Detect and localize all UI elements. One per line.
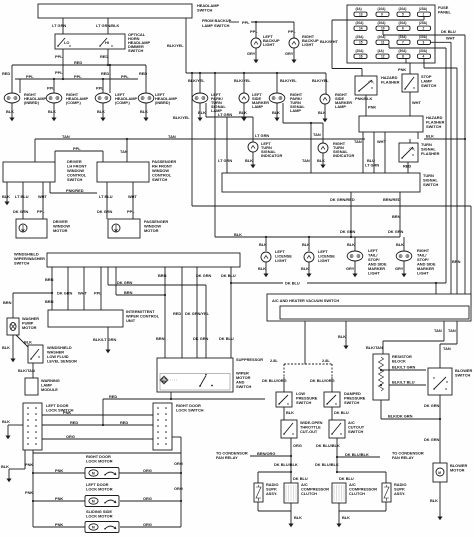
svg-text:BLK/TAN: BLK/TAN	[18, 368, 35, 373]
svg-text:DK BLU: DK BLU	[339, 476, 354, 481]
svg-text:SWITCH: SWITCH	[128, 48, 144, 53]
svg-text:BLK/DK GRN: BLK/DK GRN	[388, 414, 413, 419]
svg-text:RED: RED	[173, 311, 181, 316]
svg-text:5: 5	[402, 13, 404, 17]
svg-text:BRN: BRN	[45, 299, 54, 304]
svg-text:RED: RED	[101, 71, 109, 76]
svg-text:LIGHT: LIGHT	[275, 258, 287, 263]
svg-text:LAMP SWITCH: LAMP SWITCH	[202, 23, 230, 28]
svg-text:M: M	[438, 471, 441, 475]
svg-text:DK GRN: DK GRN	[196, 273, 212, 278]
svg-text:PPL: PPL	[55, 70, 63, 75]
svg-text:LEVEL SENSOR: LEVEL SENSOR	[47, 359, 77, 364]
svg-text:BLK: BLK	[97, 109, 105, 114]
svg-text:(30A): (30A)	[399, 49, 407, 53]
svg-text:BLK: BLK	[258, 266, 266, 271]
svg-text:WHT: WHT	[377, 139, 386, 144]
svg-text:BLK/LT GRN: BLK/LT GRN	[93, 337, 116, 342]
svg-text:PPL: PPL	[121, 74, 129, 79]
svg-text:SWITCH: SWITCH	[67, 177, 83, 182]
svg-text:LT GRN: LT GRN	[52, 23, 66, 28]
svg-text:BLK: BLK	[140, 109, 148, 114]
svg-text:2.8L: 2.8L	[322, 358, 330, 363]
svg-text:BLK: BLK	[318, 110, 326, 115]
svg-text:RED: RED	[2, 71, 10, 76]
svg-text:(INBRD): (INBRD)	[24, 100, 40, 105]
svg-text:PNK: PNK	[368, 105, 376, 110]
svg-text:16: 16	[359, 55, 363, 59]
svg-text:11: 11	[381, 41, 385, 45]
svg-text:WHT: WHT	[446, 36, 455, 41]
svg-text:MOTOR: MOTOR	[22, 325, 37, 330]
svg-text:(20A): (20A)	[356, 21, 364, 25]
svg-text:DK GRN: DK GRN	[117, 280, 133, 285]
svg-text:(20A): (20A)	[399, 7, 407, 11]
svg-text:ORG: ORG	[66, 434, 75, 439]
svg-text:BLK: BLK	[2, 345, 10, 350]
svg-text:WHT: WHT	[128, 194, 137, 199]
svg-text:BRN: BRN	[45, 277, 54, 282]
svg-text:RED: RED	[109, 394, 117, 399]
svg-text:SWITCH: SWITCH	[296, 400, 312, 405]
svg-text:GRY: GRY	[346, 266, 355, 271]
svg-text:BLK: BLK	[234, 232, 242, 237]
svg-text:BLK: BLK	[259, 242, 267, 247]
svg-text:BLK: BLK	[198, 110, 206, 115]
svg-text:LIGHT: LIGHT	[417, 271, 429, 276]
svg-text:BLK: BLK	[342, 515, 350, 520]
svg-text:LO: LO	[64, 40, 69, 45]
svg-text:TAN: TAN	[120, 149, 128, 154]
svg-text:LIGHT: LIGHT	[368, 271, 380, 276]
svg-text:BLK: BLK	[286, 410, 294, 415]
svg-text:MODULE: MODULE	[41, 387, 58, 392]
svg-text:GRY: GRY	[247, 51, 256, 56]
svg-text:SWITCH: SWITCH	[14, 261, 30, 266]
svg-text:BRN: BRN	[156, 336, 165, 341]
svg-text:(INBRD): (INBRD)	[155, 100, 171, 105]
svg-text:DK BLU/BLK: DK BLU/BLK	[315, 462, 339, 467]
svg-text:BLK: BLK	[239, 110, 247, 115]
svg-text:WHT: WHT	[78, 291, 87, 296]
svg-text:DK BLU/ORG: DK BLU/ORG	[262, 378, 287, 383]
svg-text:BLK/WHT: BLK/WHT	[320, 39, 339, 44]
svg-text:PPL: PPL	[94, 291, 102, 296]
svg-text:(20A): (20A)	[356, 49, 364, 53]
svg-text:BLK: BLK	[347, 242, 355, 247]
svg-text:PPL: PPL	[288, 29, 296, 34]
svg-text:LT GRN: LT GRN	[255, 133, 269, 138]
svg-text:TAN: TAN	[448, 328, 456, 333]
svg-text:RED: RED	[100, 54, 108, 59]
svg-text:BLK: BLK	[48, 109, 56, 114]
svg-text:DK BLU/BLK: DK BLU/BLK	[316, 443, 340, 448]
svg-text:LOCK MOTOR: LOCK MOTOR	[86, 487, 113, 492]
svg-text:SWITCH: SWITCH	[197, 8, 213, 13]
svg-text:13: 13	[359, 13, 363, 17]
svg-text:RED: RED	[74, 60, 82, 65]
svg-text:BLK/YEL: BLK/YEL	[234, 78, 251, 83]
svg-text:DK GRN: DK GRN	[57, 291, 73, 296]
svg-text:MOTOR: MOTOR	[144, 228, 159, 233]
svg-text:UNIT: UNIT	[126, 318, 136, 323]
svg-text:BLK/YEL: BLK/YEL	[280, 78, 297, 83]
svg-text:BRN: BRN	[452, 259, 461, 264]
svg-text:PPL: PPL	[37, 209, 45, 214]
svg-text:BRN: BRN	[3, 300, 12, 305]
svg-text:(25A): (25A)	[399, 35, 407, 39]
svg-text:BLK: BLK	[294, 515, 302, 520]
svg-text:RED: RED	[120, 420, 128, 425]
svg-text:BRN/RED: BRN/RED	[383, 197, 401, 202]
svg-text:SWITCH: SWITCH	[421, 83, 437, 88]
svg-text:ORG: ORG	[174, 461, 183, 466]
svg-text:PPL: PPL	[55, 54, 63, 59]
svg-text:(25A): (25A)	[419, 7, 427, 11]
svg-text:FAN RELAY: FAN RELAY	[392, 455, 414, 460]
svg-text:CUT-OUT: CUT-OUT	[300, 429, 318, 434]
svg-text:BRN/ORG: BRN/ORG	[257, 451, 275, 456]
svg-text:PPL: PPL	[26, 74, 34, 79]
svg-text:SWITCH: SWITCH	[423, 182, 439, 187]
svg-text:MOTOR: MOTOR	[450, 468, 465, 473]
svg-text:(10A): (10A)	[378, 7, 386, 11]
svg-text:LT GRN/BLK: LT GRN/BLK	[96, 23, 119, 28]
svg-text:LIGHT: LIGHT	[302, 42, 314, 47]
svg-text:(25A): (25A)	[419, 21, 427, 25]
svg-text:PNK: PNK	[25, 462, 33, 467]
svg-text:1: 1	[423, 13, 425, 17]
svg-text:PNK: PNK	[55, 496, 63, 501]
svg-text:(20A): (20A)	[378, 35, 386, 39]
svg-text:FLASHER: FLASHER	[421, 151, 440, 156]
svg-text:(20A): (20A)	[378, 21, 386, 25]
svg-text:LOCK MOTOR: LOCK MOTOR	[86, 514, 113, 519]
svg-text:DK BLU: DK BLU	[334, 410, 349, 415]
svg-text:BLK/LT GRN: BLK/LT GRN	[392, 365, 415, 370]
svg-text:DK BLU/ORG: DK BLU/ORG	[310, 378, 335, 383]
svg-text:BLK: BLK	[245, 158, 253, 163]
svg-text:(25A): (25A)	[356, 35, 364, 39]
svg-text:CLUTCH: CLUTCH	[349, 491, 365, 496]
svg-text:(30A): (30A)	[419, 35, 427, 39]
svg-text:PNK/RED: PNK/RED	[66, 188, 84, 193]
svg-text:PANEL: PANEL	[438, 10, 452, 15]
svg-text:SWITCH: SWITCH	[236, 384, 252, 389]
svg-text:TAN: TAN	[302, 158, 310, 163]
svg-text:LAMP: LAMP	[290, 108, 301, 113]
svg-text:BLK/TAN: BLK/TAN	[366, 345, 383, 350]
svg-text:RED: RED	[70, 420, 78, 425]
svg-text:TAN: TAN	[313, 132, 321, 137]
svg-text:DK BLU: DK BLU	[285, 280, 300, 285]
svg-text:DK BLU/BLK: DK BLU/BLK	[345, 452, 369, 457]
svg-text:PNK/BLK: PNK/BLK	[355, 96, 372, 101]
svg-text:SWITCH: SWITCH	[152, 177, 168, 182]
svg-text:LOCK SWITCH: LOCK SWITCH	[176, 408, 204, 413]
svg-text:ORG: ORG	[174, 486, 183, 491]
svg-text:DK GRN: DK GRN	[340, 229, 356, 234]
svg-text:WHT: WHT	[412, 100, 421, 105]
svg-text:ORG: ORG	[143, 468, 152, 473]
svg-text:DK GRN: DK GRN	[97, 209, 113, 214]
svg-text:SWITCH: SWITCH	[348, 429, 364, 434]
svg-text:BLK: BLK	[24, 340, 32, 345]
svg-text:FLASHER: FLASHER	[381, 80, 400, 85]
svg-text:BLK: BLK	[1, 464, 9, 469]
svg-text:PNK: PNK	[55, 468, 63, 473]
svg-text:LT GRN: LT GRN	[218, 112, 232, 117]
svg-text:WHT: WHT	[38, 194, 47, 199]
svg-text:TAN: TAN	[354, 139, 362, 144]
svg-text:ORG: ORG	[143, 496, 152, 501]
svg-text:BLK: BLK	[2, 419, 10, 424]
svg-text:HI: HI	[105, 40, 109, 45]
svg-text:MOTOR: MOTOR	[53, 228, 68, 233]
svg-text:BLK: BLK	[317, 158, 325, 163]
svg-text:PNK: PNK	[63, 410, 71, 415]
svg-text:15: 15	[359, 41, 363, 45]
svg-text:PPL: PPL	[250, 29, 258, 34]
svg-text:DK GRN/RED: DK GRN/RED	[330, 197, 355, 202]
svg-text:3: 3	[423, 41, 425, 45]
svg-text:SWITCH: SWITCH	[426, 124, 442, 129]
svg-text:DK GRN: DK GRN	[388, 229, 404, 234]
svg-text:14: 14	[359, 27, 363, 31]
svg-text:LOCK MOTOR: LOCK MOTOR	[86, 459, 113, 464]
svg-text:ORG: ORG	[143, 522, 152, 527]
svg-text:(20A): (20A)	[399, 21, 407, 25]
svg-text:TAN: TAN	[62, 134, 70, 139]
svg-text:LT BLU: LT BLU	[99, 194, 113, 199]
svg-text:BLK: BLK	[6, 109, 14, 114]
svg-text:4: 4	[423, 55, 425, 59]
svg-text:DK BLU/BLK: DK BLU/BLK	[274, 462, 298, 467]
svg-text:LIGHT: LIGHT	[263, 42, 275, 47]
svg-text:BLK/YEL: BLK/YEL	[188, 78, 205, 83]
svg-text:PPL: PPL	[242, 20, 250, 25]
svg-text:DK GRN: DK GRN	[193, 336, 209, 341]
svg-text:2.8L: 2.8L	[270, 358, 278, 363]
svg-text:PNK: PNK	[398, 67, 406, 72]
svg-text:DK GRN: DK GRN	[424, 437, 440, 442]
svg-text:10: 10	[381, 27, 385, 31]
svg-text:RED: RED	[403, 164, 411, 169]
svg-text:ASSY.: ASSY.	[394, 491, 405, 496]
svg-text:DK BLU: DK BLU	[221, 273, 236, 278]
svg-text:PPL: PPL	[73, 146, 81, 151]
svg-text:(5A): (5A)	[356, 7, 362, 11]
svg-text:LT GRN: LT GRN	[218, 158, 232, 163]
svg-text:(COMP.): (COMP.)	[66, 100, 82, 105]
svg-text:PPL: PPL	[127, 209, 135, 214]
svg-text:TAN: TAN	[443, 346, 451, 351]
svg-text:8: 8	[402, 55, 404, 59]
svg-text:LT BLU: LT BLU	[15, 194, 29, 199]
svg-text:BLK: BLK	[426, 134, 434, 139]
svg-text:BLK/YEL: BLK/YEL	[173, 115, 190, 120]
svg-text:LT GRN: LT GRN	[365, 163, 379, 168]
svg-text:LIGHT: LIGHT	[318, 258, 330, 263]
svg-text:BLOCK: BLOCK	[392, 359, 406, 364]
svg-text:INDICATOR: INDICATOR	[261, 153, 282, 158]
svg-text:DK BLU: DK BLU	[441, 29, 456, 34]
svg-text:BRN: BRN	[124, 290, 133, 295]
svg-text:SWITCH: SWITCH	[455, 373, 471, 378]
svg-text:BLK: BLK	[272, 110, 280, 115]
svg-text:DK BLU: DK BLU	[293, 476, 308, 481]
svg-text:PNK: PNK	[55, 522, 63, 527]
svg-text:GRY: GRY	[395, 266, 404, 271]
svg-text:BLK: BLK	[338, 334, 346, 339]
svg-text:BLK/YEL: BLK/YEL	[167, 43, 184, 48]
svg-text:BRN: BRN	[158, 273, 167, 278]
svg-text:ASSY.: ASSY.	[266, 491, 277, 496]
svg-text:SWITCH: SWITCH	[344, 400, 360, 405]
svg-text:6: 6	[402, 27, 404, 31]
svg-text:LAMP: LAMP	[335, 104, 346, 109]
svg-text:M: M	[163, 378, 165, 382]
svg-text:9: 9	[381, 13, 383, 17]
svg-text:BLK/LT BLU: BLK/LT BLU	[392, 380, 415, 385]
svg-text:(30A): (30A)	[419, 49, 427, 53]
svg-text:BLK: BLK	[396, 242, 404, 247]
svg-text:DK GRN/YEL: DK GRN/YEL	[185, 311, 210, 316]
svg-text:BLK: BLK	[302, 242, 310, 247]
svg-text:BLK: BLK	[430, 498, 438, 503]
svg-text:DK GRN: DK GRN	[424, 403, 440, 408]
svg-text:12: 12	[381, 55, 385, 59]
svg-text:PPL: PPL	[74, 74, 82, 79]
svg-text:(4A): (4A)	[378, 49, 384, 53]
svg-text:DK GRN: DK GRN	[13, 209, 29, 214]
svg-text:TAN: TAN	[168, 134, 176, 139]
svg-text:2: 2	[423, 27, 425, 31]
svg-text:BLK: BLK	[2, 194, 10, 199]
svg-text:SUPPRESSOR: SUPPRESSOR	[236, 357, 263, 362]
svg-text:7: 7	[402, 41, 404, 45]
svg-text:BRN: BRN	[392, 214, 401, 219]
svg-text:BLK: BLK	[301, 266, 309, 271]
svg-text:PNK: PNK	[25, 490, 33, 495]
svg-text:INDICATOR: INDICATOR	[333, 153, 354, 158]
svg-text:A/C AND HEATER VACUUM SWITCH: A/C AND HEATER VACUUM SWITCH	[272, 298, 339, 303]
svg-text:FAN RELAY: FAN RELAY	[216, 455, 238, 460]
svg-text:TAN: TAN	[434, 328, 442, 333]
svg-text:(COMP.): (COMP.)	[115, 100, 131, 105]
svg-text:BLK/YEL: BLK/YEL	[312, 78, 329, 83]
svg-text:GRY: GRY	[285, 51, 294, 56]
svg-text:CLUTCH: CLUTCH	[301, 491, 317, 496]
svg-text:ORG: ORG	[293, 443, 302, 448]
svg-text:DK BLU: DK BLU	[219, 336, 234, 341]
svg-text:LAMP: LAMP	[252, 104, 263, 109]
